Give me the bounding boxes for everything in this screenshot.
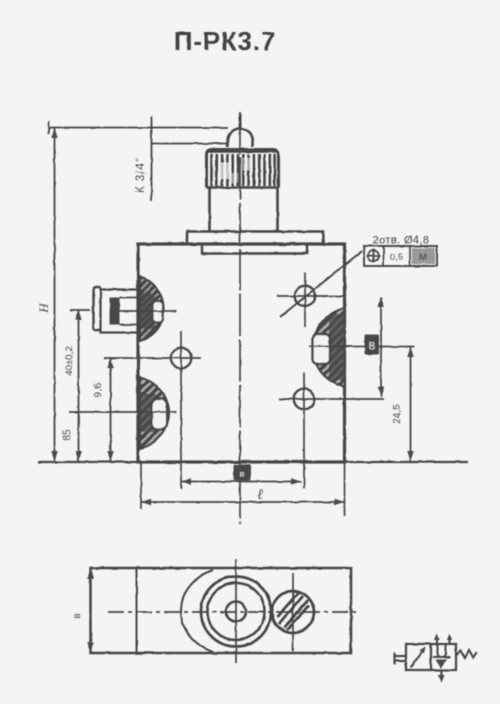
upper-right crosshair hole <box>277 272 344 327</box>
upper-left port hole edges <box>120 298 140 325</box>
svg-text:9,6: 9,6 <box>93 383 104 397</box>
hydraulic valve symbol body <box>406 644 456 670</box>
upper-left port boss rectangle <box>101 290 141 333</box>
bottom view height dimension <box>72 569 94 653</box>
svg-text:24,5: 24,5 <box>392 404 403 424</box>
datum box below body <box>234 465 252 481</box>
right port center line <box>309 346 415 348</box>
hole callout: 2 holes dia 4.8 <box>364 235 437 267</box>
knob ring dome <box>227 114 252 147</box>
svg-text:85: 85 <box>62 429 73 441</box>
dimension 40±0,2 / 85 vertical <box>62 310 90 462</box>
valve symbol plunger actuator <box>395 653 407 665</box>
title П-РК3.7 <box>174 26 276 56</box>
dimension 24,5 vertical right <box>392 347 414 462</box>
svg-text:П-РК3.7: П-РК3.7 <box>174 26 276 56</box>
svg-text:0,5: 0,5 <box>390 252 403 263</box>
valve symbol right box passages <box>433 645 450 669</box>
valve symbol return spring <box>456 651 477 659</box>
svg-text:ℓ: ℓ <box>257 488 263 503</box>
svg-text:в: в <box>240 469 245 479</box>
upper-left port boss arc (hatched) <box>140 277 164 342</box>
svg-text:М: М <box>419 252 427 263</box>
svg-text:В: В <box>369 341 376 352</box>
dimension between hole axes (bottom) <box>181 478 301 484</box>
svg-text:2отв. Ø4,8: 2отв. Ø4,8 <box>373 235 430 247</box>
dimension between right holes with boxed label <box>365 297 385 397</box>
svg-text:40±0,2: 40±0,2 <box>64 347 75 376</box>
right port boss arc (hatched) <box>313 308 345 387</box>
knurl worn patches <box>219 158 252 183</box>
valve symbol divider <box>430 644 432 670</box>
knob base plate <box>202 245 307 254</box>
lower-left port boss arc (hatched) <box>140 378 169 450</box>
svg-text:в: в <box>72 613 83 618</box>
valve body outline <box>138 244 345 462</box>
valve symbol bottom port arrow <box>438 670 445 683</box>
lower-right crosshair hole <box>279 372 384 489</box>
bottom view big port circles <box>201 559 271 663</box>
dimension 9,6 vertical <box>93 358 114 462</box>
leader line to hole callout <box>280 251 362 317</box>
upper-left port center line <box>120 310 177 312</box>
vertical center line of main view <box>239 112 241 524</box>
upper-left port hole (dark bar) <box>110 298 120 325</box>
bottom view outline <box>91 568 352 653</box>
valve symbol left box flow arrow <box>411 647 426 668</box>
upper-left port flange <box>94 287 102 330</box>
bottom view boss arc <box>181 570 213 652</box>
knob flange <box>187 232 323 245</box>
bottom view center line <box>108 611 358 613</box>
bottom baseline extended <box>38 461 468 463</box>
knob lower cylinder <box>207 188 279 232</box>
bottom view small hatched circle <box>272 573 314 651</box>
thread leader K 3/4 <box>135 116 229 201</box>
svg-text:Н: Н <box>36 303 51 314</box>
lower-left port center line <box>69 411 177 413</box>
dimension H vertical <box>36 128 58 462</box>
knurled cap <box>207 150 279 188</box>
dimension l (body length) <box>141 463 345 516</box>
knurl lines <box>212 154 275 186</box>
left crosshair hole <box>104 331 201 489</box>
svg-text:К 3/4": К 3/4" <box>135 157 147 193</box>
valve symbol top ports <box>434 634 452 645</box>
bottom view inner edge line <box>136 568 138 653</box>
dimension H top extension line <box>49 121 229 134</box>
